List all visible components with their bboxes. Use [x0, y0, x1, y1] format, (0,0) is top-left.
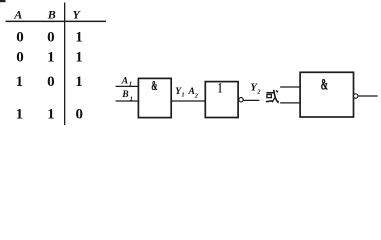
- svg-text:B: B: [47, 8, 56, 22]
- svg-text:1: 1: [16, 107, 24, 123]
- svg-text:A: A: [188, 86, 195, 97]
- svg-text:1: 1: [47, 49, 55, 65]
- svg-text:1: 1: [47, 107, 55, 123]
- svg-text:1: 1: [75, 49, 83, 65]
- svg-text:1: 1: [130, 96, 133, 103]
- svg-text:2: 2: [256, 89, 261, 96]
- svg-text:A: A: [13, 8, 22, 22]
- svg-text:1: 1: [16, 74, 24, 90]
- svg-text:1: 1: [75, 29, 83, 45]
- svg-text:1: 1: [218, 81, 222, 97]
- svg-text:1: 1: [129, 80, 132, 87]
- svg-text:0: 0: [47, 29, 55, 45]
- svg-text:&: &: [321, 77, 328, 94]
- svg-text:&: &: [151, 78, 157, 93]
- svg-text:0: 0: [16, 49, 24, 65]
- svg-text:B: B: [121, 89, 129, 100]
- svg-text:1: 1: [75, 74, 83, 90]
- svg-text:0: 0: [76, 107, 84, 123]
- svg-text:2: 2: [194, 92, 199, 99]
- svg-text:1: 1: [181, 92, 184, 99]
- svg-text:0: 0: [16, 29, 24, 45]
- svg-text:A: A: [121, 76, 128, 87]
- svg-text:0: 0: [47, 74, 55, 90]
